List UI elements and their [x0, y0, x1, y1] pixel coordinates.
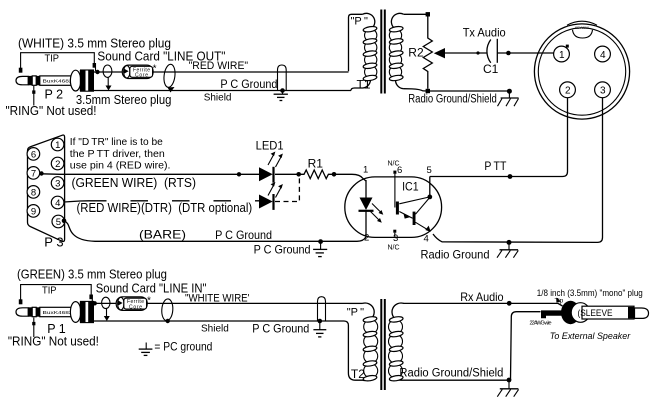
svg-text:1: 1 [363, 165, 368, 176]
svg-text:P C Ground: P C Ground [215, 228, 272, 242]
wire radio ground/shield (T2 bottom) [399, 368, 511, 383]
label P 2 [45, 88, 64, 102]
svg-text:3.5mm Stereo plug: 3.5mm Stereo plug [76, 93, 172, 107]
svg-text:8: 8 [31, 187, 36, 198]
svg-text:4: 4 [424, 234, 429, 245]
callout TIP (P2) [19, 53, 96, 73]
svg-text:22 AWG wire: 22 AWG wire [530, 321, 552, 327]
pin 2 [560, 82, 576, 98]
connector P3 DB9 [27, 135, 64, 249]
svg-text:(BARE): (BARE) [139, 228, 186, 242]
svg-text:(SLEEVE: (SLEEVE [578, 308, 613, 318]
wire shield P2 to T1 [93, 90, 351, 92]
svg-text:7: 7 [31, 168, 36, 179]
pin 6 stub N/C [393, 171, 396, 174]
wire tip conductor P1 to T2 [93, 302, 349, 304]
svg-text:(WHITE) 3.5 mm Stereo plug: (WHITE) 3.5 mm Stereo plug [18, 37, 171, 51]
svg-text:BuxK4682: BuxK4682 [43, 310, 73, 316]
label (WHITE) 3.5 mm Stereo plug [18, 37, 171, 51]
svg-text:= PC ground: = PC ground [154, 340, 212, 354]
svg-text:R2: R2 [408, 46, 424, 60]
svg-text:T2: T2 [351, 367, 365, 381]
svg-text:TIP: TIP [42, 284, 57, 296]
wire Rx Audio (T2 to mono plug tip) [404, 290, 563, 306]
T2 core [380, 299, 382, 390]
chassis ground (middle radio ground) [497, 242, 518, 257]
wire RTS from P3 pin 7 [39, 171, 259, 190]
svg-text:N/C: N/C [388, 245, 400, 252]
svg-text:the P TT driver, then: the P TT driver, then [70, 149, 165, 160]
svg-text:R1: R1 [308, 157, 324, 171]
label (GREEN) 3.5 mm Stereo plug [17, 268, 167, 282]
svg-text:1/8 inch (3.5mm) "mono" plug: 1/8 inch (3.5mm) "mono" plug [537, 288, 643, 299]
callout TIP (P1) [19, 284, 93, 304]
svg-text:TIP: TIP [45, 53, 60, 65]
svg-text:P C Ground: P C Ground [220, 77, 277, 91]
svg-text:Shield: Shield [204, 93, 232, 104]
svg-text:Shield: Shield [201, 324, 229, 335]
ferrite core (bottom) [116, 295, 151, 310]
wire R2 wiper to C1 [445, 51, 487, 54]
wire sleeve to ground (mono plug) [511, 312, 541, 380]
legend PC ground symbol [139, 340, 213, 356]
connector P2 3.5mm stereo plug [16, 70, 94, 91]
transformer T2 [344, 299, 404, 390]
label RING not used with leader [6, 86, 97, 118]
node PC Ground (middle, ground symbol) [254, 239, 328, 256]
LED LED1 [256, 139, 301, 183]
transformer T1 [349, 10, 428, 94]
wire tip conductor P2 to T1 [93, 71, 349, 73]
svg-text:6: 6 [31, 149, 36, 160]
svg-text:"RING" Not used!: "RING" Not used! [8, 335, 99, 349]
svg-text:Core: Core [135, 73, 148, 79]
svg-text:1: 1 [559, 50, 565, 61]
pin 3 stub N/C [393, 230, 396, 233]
pin 5 lead [429, 177, 431, 197]
opto LED [365, 180, 367, 198]
connector J1 4-pin microphone (radio) [534, 21, 629, 119]
svg-text:P C Ground: P C Ground [252, 322, 309, 336]
label Tx Audio [463, 26, 506, 40]
svg-text:3: 3 [393, 233, 398, 244]
svg-text:*: * [153, 64, 157, 75]
photon arrows [372, 204, 381, 213]
svg-text:"P ": "P " [351, 16, 368, 28]
svg-text:P 3: P 3 [44, 235, 63, 250]
label 3.5mm Stereo plug [76, 93, 172, 107]
transistor Q1 (input darlington) [396, 202, 399, 215]
chassis ground (bottom) [497, 380, 518, 397]
T2 secondary winding [392, 303, 404, 319]
cable loop large (bottom) [161, 299, 173, 324]
pin 3 [595, 82, 611, 98]
svg-text:1: 1 [55, 140, 60, 151]
wire DTR dashed from P3 pin 4 [64, 201, 259, 215]
label RING not used with leader (P1) [8, 318, 99, 349]
label RED WIRE [189, 60, 249, 72]
resistor R1 [299, 157, 337, 179]
svg-text:Radio Ground/Shield: Radio Ground/Shield [399, 368, 503, 380]
svg-text:BuxK4682: BuxK4682 [43, 79, 73, 85]
svg-text:4: 4 [600, 50, 606, 61]
LED LED2 (DTR optional) [259, 177, 299, 210]
svg-text:3: 3 [600, 86, 606, 97]
svg-text:P TT: P TT [484, 161, 506, 173]
pin 1 lead [334, 174, 366, 181]
svg-text:P C Ground: P C Ground [254, 242, 311, 256]
connector P1 3.5mm stereo plug [16, 301, 94, 322]
svg-text:LED1: LED1 [256, 139, 284, 153]
svg-text:Rx Audio: Rx Audio [460, 290, 504, 304]
wire PTT (opto pin5 to J1 pin2) [430, 98, 568, 179]
ferrite core (top) [122, 64, 156, 79]
svg-text:4: 4 [55, 198, 60, 209]
label Sound Card LINE IN with leader [92, 281, 206, 305]
wire shield P1 to T2 corner [93, 320, 344, 322]
capacitor C1 [483, 39, 499, 76]
svg-text:T1: T1 [357, 78, 371, 92]
svg-text:KEYWAY: KEYWAY [575, 26, 589, 30]
node PC Ground (top) [204, 65, 288, 104]
svg-text:N/C: N/C [388, 161, 400, 168]
T1 secondary winding [391, 13, 403, 29]
svg-text:"WHITE WIRE': "WHITE WIRE' [185, 293, 250, 305]
T1 primary winding [349, 14, 363, 71]
svg-text:(GREEN) 3.5 mm Stereo plug: (GREEN) 3.5 mm Stereo plug [17, 268, 167, 282]
label Sound Card LINE OUT with leader [95, 50, 225, 75]
note text DTR [70, 137, 171, 172]
svg-text:C1: C1 [483, 62, 499, 76]
connector SPKR mono plug [530, 288, 649, 341]
svg-text:5: 5 [56, 217, 61, 228]
label P 1 [47, 322, 66, 336]
wire radio ground (opto pin4 to J1 pin3) [421, 98, 603, 261]
pin 4 [595, 46, 611, 62]
svg-text:*: * [147, 295, 151, 306]
wire C1 to connector pin 1 [497, 51, 554, 56]
svg-text:IC1: IC1 [402, 179, 419, 193]
cable loop small (P1 exit) [102, 297, 110, 321]
node Radio Ground/Shield (top chassis ground) [408, 89, 518, 107]
pin 1 [554, 46, 570, 62]
svg-text:"RED WIRE": "RED WIRE" [189, 60, 249, 72]
svg-text:2: 2 [565, 86, 571, 97]
svg-text:Core: Core [129, 304, 142, 310]
svg-text:3: 3 [55, 179, 60, 190]
optocoupler IC1 [334, 161, 442, 252]
label WHITE WIRE [185, 293, 250, 305]
wire BARE / PC ground (P3 pin 5 to opto pin 2) [62, 219, 366, 243]
svg-text:"P ": "P " [347, 307, 364, 319]
potentiometer R2 [408, 12, 445, 93]
svg-text:(RED WIRE)(DTR) (DTR optional: (RED WIRE)(DTR) (DTR optional) [77, 201, 253, 215]
transistor Q2 (output darlington) [413, 212, 416, 225]
svg-text:Radio Ground: Radio Ground [421, 247, 490, 261]
svg-text:P 2: P 2 [45, 88, 64, 102]
svg-text:(GREEN WIRE) (RTS): (GREEN WIRE) (RTS) [72, 176, 197, 190]
svg-text:Tx Audio: Tx Audio [463, 26, 506, 40]
cable loop large with shield arrow (top) [163, 64, 177, 93]
svg-text:If "D TR" line is to be: If "D TR" line is to be [70, 137, 163, 148]
svg-text:Radio Ground/Shield: Radio Ground/Shield [408, 94, 497, 106]
svg-text:2: 2 [55, 159, 60, 170]
svg-text:use pin 4 (RED wire).: use pin 4 (RED wire). [70, 161, 171, 172]
node PC Ground (bottom) [201, 297, 326, 337]
svg-text:5: 5 [427, 165, 432, 176]
T1 core [380, 10, 382, 94]
svg-text:9: 9 [31, 206, 36, 217]
cable loop small (P2 exit) [103, 65, 112, 91]
svg-text:To External Speaker: To External Speaker [550, 331, 631, 341]
T2 primary winding [344, 321, 370, 380]
